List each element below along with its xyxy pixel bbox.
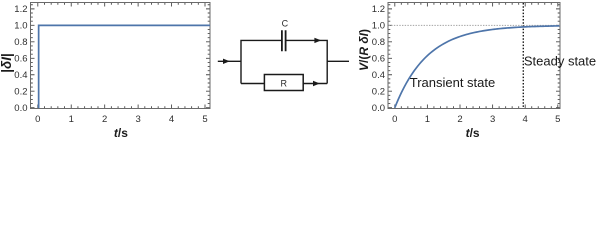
svg-text:1: 1 — [69, 114, 74, 125]
svg-text:0.0: 0.0 — [372, 103, 385, 114]
svg-text:5: 5 — [202, 114, 207, 125]
svg-text:0: 0 — [35, 114, 40, 125]
svg-text:Steady state: Steady state — [524, 54, 596, 69]
svg-text:5: 5 — [555, 114, 560, 125]
svg-text:0.8: 0.8 — [372, 37, 385, 48]
svg-text:t/s: t/s — [466, 126, 480, 140]
svg-text:0.8: 0.8 — [14, 37, 27, 48]
svg-text:V/(R δI): V/(R δI) — [357, 29, 371, 71]
svg-text:0.6: 0.6 — [14, 53, 27, 64]
svg-text:1: 1 — [425, 114, 430, 125]
svg-text:2: 2 — [457, 114, 462, 125]
svg-text:0.0: 0.0 — [14, 103, 27, 114]
svg-text:4: 4 — [169, 114, 174, 125]
svg-text:1.0: 1.0 — [14, 21, 27, 32]
svg-text:4: 4 — [523, 114, 528, 125]
svg-text:R: R — [281, 79, 288, 89]
svg-text:2: 2 — [102, 114, 107, 125]
svg-text:1.2: 1.2 — [14, 4, 27, 15]
svg-text:0.4: 0.4 — [372, 70, 385, 81]
svg-text:t/s: t/s — [114, 126, 128, 140]
svg-text:C: C — [282, 19, 289, 29]
svg-text:|δI|: |δI| — [0, 53, 14, 73]
svg-text:3: 3 — [135, 114, 140, 125]
svg-text:1.2: 1.2 — [372, 4, 385, 15]
svg-text:0: 0 — [392, 114, 397, 125]
svg-text:0.2: 0.2 — [14, 86, 27, 97]
svg-text:3: 3 — [490, 114, 495, 125]
svg-text:0.6: 0.6 — [372, 53, 385, 64]
svg-text:0.4: 0.4 — [14, 70, 27, 81]
svg-text:0.2: 0.2 — [372, 86, 385, 97]
svg-text:Transient state: Transient state — [410, 75, 496, 90]
svg-text:1.0: 1.0 — [372, 21, 385, 32]
